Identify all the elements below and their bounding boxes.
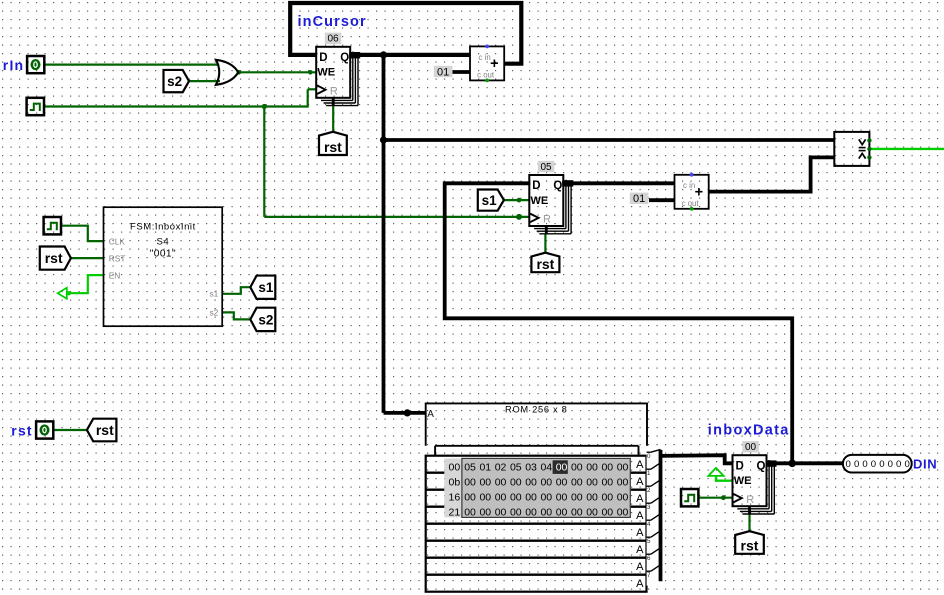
svg-text:A: A xyxy=(636,476,644,488)
svg-text:00: 00 xyxy=(495,507,507,519)
svg-text:00: 00 xyxy=(556,462,568,474)
svg-text:00: 00 xyxy=(556,507,568,519)
svg-text:01: 01 xyxy=(479,462,491,474)
svg-text:00: 00 xyxy=(540,507,552,519)
svg-text:00: 00 xyxy=(464,492,476,504)
svg-text:A: A xyxy=(636,527,644,539)
svg-text:RST: RST xyxy=(109,254,126,264)
svg-text:00: 00 xyxy=(556,492,568,504)
svg-text:S4: S4 xyxy=(157,236,170,247)
svg-text:rst: rst xyxy=(536,256,554,272)
svg-text:s1: s1 xyxy=(482,193,498,208)
svg-text:04: 04 xyxy=(540,462,552,474)
svg-text:21: 21 xyxy=(449,507,461,519)
svg-text:rst: rst xyxy=(741,538,759,554)
svg-text:R: R xyxy=(330,85,338,97)
svg-text:ROM 256 x 8: ROM 256 x 8 xyxy=(505,405,567,415)
svg-text:00: 00 xyxy=(540,477,552,489)
svg-text:00: 00 xyxy=(571,507,583,519)
svg-text:00: 00 xyxy=(601,477,613,489)
svg-text:00: 00 xyxy=(571,492,583,504)
svg-text:DIN: DIN xyxy=(913,457,937,472)
svg-text:00: 00 xyxy=(617,462,629,474)
svg-text:00: 00 xyxy=(601,492,613,504)
svg-text:R: R xyxy=(543,214,551,226)
svg-text:00: 00 xyxy=(601,462,613,474)
svg-text:A: A xyxy=(636,493,644,505)
svg-text:00: 00 xyxy=(556,477,568,489)
svg-text:00: 00 xyxy=(586,492,598,504)
svg-text:s1: s1 xyxy=(209,289,218,299)
svg-text:0: 0 xyxy=(896,459,901,470)
svg-text:00: 00 xyxy=(617,477,629,489)
svg-text:0b: 0b xyxy=(449,477,461,489)
svg-text:R: R xyxy=(746,494,754,506)
svg-text:00: 00 xyxy=(586,477,598,489)
svg-text:00: 00 xyxy=(464,507,476,519)
svg-text:0: 0 xyxy=(879,459,884,470)
svg-text:00: 00 xyxy=(495,492,507,504)
svg-text:00: 00 xyxy=(479,507,491,519)
svg-text:WE: WE xyxy=(531,195,549,207)
svg-text:05: 05 xyxy=(510,462,522,474)
svg-text:A: A xyxy=(636,459,644,471)
svg-text:rIn: rIn xyxy=(3,57,25,73)
svg-text:00: 00 xyxy=(617,507,629,519)
svg-text:3: 3 xyxy=(647,504,651,511)
svg-text:16: 16 xyxy=(449,492,461,504)
svg-text:s2: s2 xyxy=(209,307,218,317)
svg-text:00: 00 xyxy=(601,507,613,519)
svg-text:00: 00 xyxy=(510,477,522,489)
svg-text:01: 01 xyxy=(633,193,645,205)
svg-text:00: 00 xyxy=(745,442,757,453)
svg-text:00: 00 xyxy=(449,462,461,474)
svg-text:0: 0 xyxy=(854,459,859,470)
svg-text:CLK: CLK xyxy=(109,237,126,247)
svg-text:Q: Q xyxy=(757,460,766,472)
svg-text:00: 00 xyxy=(586,462,598,474)
svg-text:05: 05 xyxy=(540,162,552,173)
svg-text:00: 00 xyxy=(571,462,583,474)
svg-text:A: A xyxy=(636,561,644,573)
svg-text:s2: s2 xyxy=(258,312,273,327)
svg-text:Q: Q xyxy=(553,180,562,192)
svg-text:rst: rst xyxy=(45,250,63,266)
svg-text:inboxData: inboxData xyxy=(708,423,790,439)
svg-text:A: A xyxy=(636,510,644,522)
svg-text:5: 5 xyxy=(647,538,651,545)
svg-text:00: 00 xyxy=(525,492,537,504)
svg-text:00: 00 xyxy=(571,477,583,489)
svg-text:6: 6 xyxy=(647,555,651,562)
svg-text:D: D xyxy=(319,52,327,64)
svg-text:FSM:InboxInit: FSM:InboxInit xyxy=(130,221,196,232)
svg-text:4: 4 xyxy=(647,521,651,528)
svg-text:2: 2 xyxy=(647,487,651,494)
svg-text:0: 0 xyxy=(846,459,851,470)
svg-text:0: 0 xyxy=(871,459,876,470)
svg-text:00: 00 xyxy=(617,492,629,504)
svg-text:06: 06 xyxy=(327,34,339,45)
svg-text:0: 0 xyxy=(862,459,867,470)
svg-text:c in: c in xyxy=(683,181,695,190)
svg-text:rst: rst xyxy=(11,422,33,438)
svg-text:+: + xyxy=(695,185,703,201)
svg-text:c in: c in xyxy=(479,53,491,62)
svg-text:00: 00 xyxy=(510,492,522,504)
svg-text:EN: EN xyxy=(109,271,121,281)
svg-text:00: 00 xyxy=(495,477,507,489)
svg-text:WE: WE xyxy=(734,475,752,487)
svg-text:00: 00 xyxy=(464,477,476,489)
svg-text:s2: s2 xyxy=(167,74,182,89)
svg-text:05: 05 xyxy=(464,462,476,474)
svg-text:+: + xyxy=(490,56,498,72)
svg-text:Q: Q xyxy=(340,52,349,64)
svg-text:02: 02 xyxy=(495,462,507,474)
svg-text:00: 00 xyxy=(479,477,491,489)
svg-text:7: 7 xyxy=(647,572,651,579)
svg-text:00: 00 xyxy=(586,507,598,519)
svg-text:00: 00 xyxy=(479,492,491,504)
svg-text:00: 00 xyxy=(525,507,537,519)
svg-text:WE: WE xyxy=(317,67,335,79)
svg-text:A: A xyxy=(427,409,434,420)
svg-text:1: 1 xyxy=(647,470,651,477)
svg-text:00: 00 xyxy=(525,477,537,489)
svg-text:00: 00 xyxy=(540,492,552,504)
svg-text:"001": "001" xyxy=(150,249,176,260)
svg-text:03: 03 xyxy=(525,462,537,474)
svg-text:inCursor: inCursor xyxy=(298,14,367,30)
svg-text:00: 00 xyxy=(510,507,522,519)
svg-text:A: A xyxy=(636,578,644,590)
svg-text:D: D xyxy=(736,460,744,472)
svg-text:D: D xyxy=(532,180,540,192)
svg-text:rst: rst xyxy=(96,422,114,438)
svg-text:0: 0 xyxy=(904,459,909,470)
svg-text:rst: rst xyxy=(324,139,342,155)
svg-text:0: 0 xyxy=(888,459,893,470)
svg-text:A: A xyxy=(636,544,644,556)
svg-text:0: 0 xyxy=(647,453,651,460)
svg-text:01: 01 xyxy=(437,66,449,78)
svg-text:s1: s1 xyxy=(258,280,274,295)
